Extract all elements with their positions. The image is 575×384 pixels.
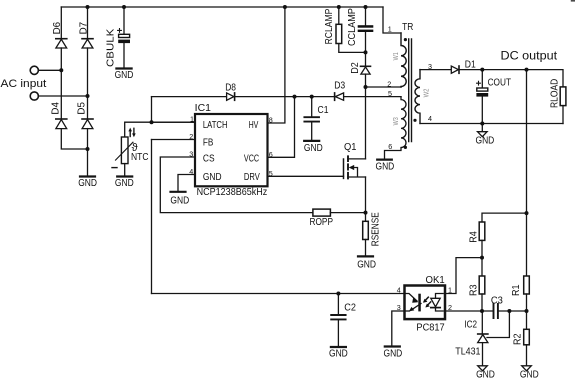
svg-text:1: 1 bbox=[388, 25, 392, 34]
transformer core bbox=[409, 39, 412, 142]
wire D6 branch top bbox=[60, 7, 62, 39]
ground NTC bbox=[117, 175, 132, 177]
ground C2 bbox=[331, 346, 346, 348]
wire OK1 pin2 to C3 bbox=[446, 310, 493, 312]
wire DC output rail bbox=[459, 70, 563, 87]
ground R2 bbox=[522, 366, 532, 371]
wire OK1 pin3 gnd bbox=[392, 311, 405, 347]
resistor RLOAD bbox=[560, 87, 566, 106]
svg-text:ϑ: ϑ bbox=[132, 142, 138, 154]
capacitor COUT bbox=[476, 81, 488, 96]
wire D8 anode riser bbox=[151, 97, 153, 123]
svg-text:GND: GND bbox=[203, 172, 222, 183]
diode D2 bbox=[361, 66, 371, 74]
svg-text:3: 3 bbox=[189, 150, 193, 159]
wire secondary gnd rail bbox=[420, 123, 563, 125]
optocoupler OK1 box bbox=[405, 286, 446, 320]
wire CCLAMP bottom bbox=[365, 32, 367, 52]
transformer TR aux W3 bbox=[385, 97, 407, 160]
capacitor CCLAMP bbox=[358, 25, 374, 32]
wire NTC top bbox=[125, 122, 195, 137]
wire CBULK bottom bbox=[123, 43, 125, 68]
svg-text:2: 2 bbox=[189, 132, 193, 141]
diode D4 bbox=[56, 119, 67, 129]
wire D7-D5 bbox=[87, 48, 89, 119]
artifact top right corner bbox=[571, 0, 575, 2]
svg-text:4: 4 bbox=[397, 285, 401, 294]
wire R2 top bbox=[526, 311, 528, 329]
shunt regulator U2 TL431 bbox=[478, 311, 510, 343]
svg-text:D3: D3 bbox=[334, 81, 345, 92]
capacitor C2 bbox=[331, 315, 345, 319]
svg-text:IC1: IC1 bbox=[195, 103, 212, 114]
capacitor C3 bbox=[494, 304, 498, 318]
svg-text:TR: TR bbox=[402, 22, 413, 33]
svg-text:5: 5 bbox=[269, 169, 273, 178]
svg-text:3: 3 bbox=[428, 62, 432, 71]
ground C1 bbox=[304, 140, 319, 142]
svg-text:HV: HV bbox=[249, 120, 259, 131]
wire ROPP to sense node bbox=[330, 212, 365, 214]
wire D2 cathode up bbox=[365, 52, 367, 66]
transformer TR primary W1 bbox=[401, 33, 406, 87]
wire C2 bottom bbox=[337, 320, 339, 347]
wire CCLAMP top bbox=[365, 7, 367, 25]
svg-text:D4: D4 bbox=[51, 102, 62, 115]
svg-text:D2: D2 bbox=[350, 62, 361, 74]
IC U1 NCP1238 box bbox=[195, 114, 268, 186]
svg-text:CCLAMP: CCLAMP bbox=[347, 8, 358, 46]
diode D7 bbox=[82, 39, 93, 48]
wire output sense riser bbox=[526, 70, 528, 276]
svg-text:8: 8 bbox=[269, 115, 273, 124]
wire FB rail to OK1 bbox=[152, 293, 405, 295]
ground bridge bbox=[80, 175, 95, 177]
optocoupler OK1 internals bbox=[406, 294, 443, 312]
transistor Q1 bbox=[344, 156, 366, 178]
svg-text:1: 1 bbox=[190, 115, 194, 124]
svg-text:LATCH: LATCH bbox=[203, 120, 228, 131]
svg-text:6: 6 bbox=[388, 142, 392, 151]
svg-text:GND: GND bbox=[376, 161, 395, 172]
wire Q1 source to sense bbox=[365, 177, 367, 213]
wire Q1 drain riser bbox=[365, 87, 367, 159]
svg-text:R1: R1 bbox=[511, 284, 522, 296]
diode D1 bbox=[451, 66, 459, 73]
wire TR pin1 riser bbox=[383, 7, 401, 33]
wire HV riser bbox=[268, 7, 285, 123]
svg-text:GND: GND bbox=[520, 370, 539, 381]
svg-text:C3: C3 bbox=[491, 295, 503, 306]
svg-text:W3: W3 bbox=[393, 117, 400, 125]
svg-text:R3: R3 bbox=[469, 284, 480, 296]
ground TL431 bbox=[478, 366, 488, 371]
wire NTC bottom bbox=[124, 164, 126, 177]
diode D5 bbox=[82, 119, 93, 129]
svg-text:R4: R4 bbox=[468, 231, 479, 243]
svg-text:GND: GND bbox=[170, 196, 189, 207]
wire D8 row left bbox=[152, 96, 227, 98]
svg-text:DRV: DRV bbox=[244, 172, 260, 183]
phase dot W1 bbox=[404, 38, 407, 41]
svg-text:RLOAD: RLOAD bbox=[550, 79, 561, 108]
wire D5 bottom to gnd bbox=[87, 129, 89, 177]
svg-text:W2: W2 bbox=[424, 89, 431, 98]
svg-text:IC2: IC2 bbox=[464, 319, 477, 330]
svg-text:DC output: DC output bbox=[501, 49, 558, 63]
svg-text:6: 6 bbox=[269, 150, 273, 159]
svg-text:PC817: PC817 bbox=[416, 322, 445, 333]
svg-text:COUT: COUT bbox=[488, 78, 512, 89]
diode D6 bbox=[56, 39, 67, 48]
wire R3 bottom bbox=[481, 294, 483, 311]
svg-text:1: 1 bbox=[448, 285, 452, 294]
wire R4 tap bbox=[482, 213, 527, 222]
svg-text:RCLAMP: RCLAMP bbox=[324, 9, 335, 45]
phase dot W3 bbox=[404, 146, 407, 149]
svg-text:GND: GND bbox=[476, 135, 495, 146]
wire RLOAD bottom bbox=[562, 106, 564, 124]
wire VCC riser bbox=[268, 97, 295, 158]
wire OK1 pin1 link bbox=[446, 258, 483, 294]
svg-text:GND: GND bbox=[476, 370, 495, 381]
svg-text:GND: GND bbox=[357, 260, 376, 271]
wire C3 right to R1 node bbox=[499, 310, 527, 312]
svg-text:3: 3 bbox=[397, 303, 401, 312]
wire FB pin2 bbox=[152, 139, 196, 141]
resistor RCLAMP bbox=[336, 24, 342, 43]
wire RSENSE bottom bbox=[365, 240, 367, 257]
terminal AC neutral bbox=[30, 92, 38, 100]
wire D4 bottom to gnd row bbox=[61, 129, 87, 149]
svg-text:GND: GND bbox=[329, 349, 348, 360]
svg-text:R2: R2 bbox=[512, 333, 523, 345]
resistor R3 bbox=[479, 276, 485, 294]
svg-text:W1: W1 bbox=[393, 52, 400, 60]
wire LATCH pin1 bbox=[152, 121, 196, 123]
wire AC live bbox=[39, 69, 62, 71]
wire DRV pin5 bbox=[268, 175, 344, 177]
wire C1 bottom bbox=[311, 123, 313, 141]
wire D3 anode to TR pin5 bbox=[344, 96, 401, 98]
ground RSENSE bbox=[358, 255, 373, 257]
terminal AC live bbox=[30, 66, 38, 74]
wire R1 bottom bbox=[526, 294, 528, 311]
svg-text:D7: D7 bbox=[78, 22, 89, 35]
capacitor C1 bbox=[304, 117, 319, 121]
diode D8 bbox=[227, 93, 235, 100]
svg-text:VCC: VCC bbox=[244, 154, 259, 165]
wire AC neutral bbox=[39, 95, 88, 97]
svg-text:GND: GND bbox=[78, 178, 97, 189]
svg-text:CS: CS bbox=[203, 154, 215, 165]
wire D7 branch top bbox=[87, 7, 89, 39]
wire CBULK top bbox=[123, 7, 125, 34]
svg-text:D5: D5 bbox=[77, 102, 88, 115]
ground IC1 bbox=[171, 191, 186, 193]
resistor RSENSE bbox=[363, 221, 369, 239]
svg-text:C1: C1 bbox=[318, 105, 329, 116]
wire R2 bottom bbox=[526, 345, 528, 366]
wire IC gnd pin4 bbox=[178, 175, 195, 192]
wire C1 top bbox=[311, 97, 313, 117]
svg-text:AC input: AC input bbox=[1, 78, 47, 90]
ground OK1 bbox=[385, 345, 400, 347]
wire TL431 anode bbox=[482, 343, 484, 366]
wire C2 top bbox=[337, 294, 339, 315]
wire R4 bottom bbox=[481, 240, 483, 276]
wire COUT bottom bbox=[481, 97, 483, 124]
svg-text:TL431: TL431 bbox=[455, 347, 480, 358]
svg-text:GND: GND bbox=[115, 70, 134, 81]
svg-text:Q1: Q1 bbox=[344, 142, 357, 153]
svg-text:CBULK: CBULK bbox=[106, 29, 117, 67]
svg-text:FB: FB bbox=[203, 137, 214, 148]
svg-text:RSENSE: RSENSE bbox=[371, 212, 382, 246]
ground TR pin6 bbox=[377, 159, 392, 161]
svg-text:ROPP: ROPP bbox=[310, 217, 334, 228]
svg-text:GND: GND bbox=[304, 143, 323, 154]
wire D2 anode down bbox=[365, 74, 367, 87]
wire COUT top bbox=[481, 70, 483, 88]
resistor R4 bbox=[479, 222, 485, 240]
phase dot W2 bbox=[413, 119, 416, 122]
ground CBULK bbox=[116, 67, 131, 69]
wire top HV rail bbox=[61, 6, 383, 8]
resistor R1 bbox=[524, 276, 530, 294]
ground secondary bbox=[478, 124, 488, 137]
svg-text:4: 4 bbox=[189, 167, 193, 176]
wire TR pin3 row bbox=[420, 69, 451, 71]
diode D3 bbox=[335, 93, 344, 100]
transformer TR secondary W2 bbox=[415, 70, 420, 124]
svg-text:GND: GND bbox=[384, 349, 403, 360]
wire CS pin3 bbox=[160, 157, 313, 213]
wire sense node to RSENSE bbox=[365, 213, 367, 222]
capacitor CBULK bbox=[118, 29, 130, 44]
svg-text:D8: D8 bbox=[225, 82, 236, 93]
svg-text:D1: D1 bbox=[465, 60, 476, 71]
svg-text:2: 2 bbox=[387, 79, 391, 88]
svg-text:NCP1238B65kHz: NCP1238B65kHz bbox=[197, 187, 268, 198]
svg-text:C2: C2 bbox=[344, 302, 356, 313]
svg-text:2: 2 bbox=[448, 303, 452, 312]
wire TL431 cathode bbox=[481, 311, 483, 334]
wire RCLAMP top bbox=[338, 7, 340, 24]
svg-text:5: 5 bbox=[388, 89, 392, 98]
resistor R2 bbox=[524, 329, 530, 345]
wire FB riser down bbox=[151, 140, 153, 294]
wire D8 cathode to D3 bbox=[235, 96, 335, 98]
svg-text:4: 4 bbox=[428, 114, 432, 123]
wire clamp bottom row bbox=[339, 44, 366, 53]
svg-text:GND: GND bbox=[115, 178, 134, 189]
wire TR pin2 row bbox=[366, 86, 402, 88]
wire D6-D4 bbox=[60, 48, 62, 119]
svg-text:D6: D6 bbox=[52, 22, 63, 35]
svg-text:OK1: OK1 bbox=[426, 275, 445, 286]
thermistor NTC bbox=[112, 128, 136, 168]
resistor ROPP bbox=[313, 209, 331, 216]
